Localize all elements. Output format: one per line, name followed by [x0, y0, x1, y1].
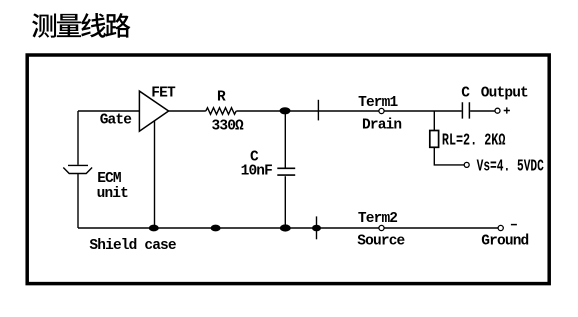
junction dot source rail at cap C1 — [280, 224, 291, 231]
svg-text:Vs=4. 5VDC: Vs=4. 5VDC — [477, 158, 544, 177]
terminal Term2 open circle — [379, 225, 384, 230]
svg-text:FET: FET — [151, 86, 176, 102]
svg-text:Term2: Term2 — [358, 211, 397, 227]
terminal Term1 open circle — [379, 108, 384, 113]
wire node A to Term1 — [285, 110, 379, 112]
terminal Ground open circle — [498, 225, 503, 230]
wire RL tee down to RL — [433, 111, 435, 131]
resistor RL box — [430, 131, 439, 148]
FET source wire — [154, 121, 156, 229]
tick mark on drain wire — [317, 100, 319, 121]
wire cap C1 branch vertical upper — [284, 113, 286, 168]
tick mark on source rail — [316, 216, 318, 239]
wire ECM to shield rail — [77, 174, 79, 229]
terminal Vs open circle — [464, 162, 469, 167]
wire FET output to resistor R — [169, 110, 206, 112]
wire ECM to gate vertical — [77, 111, 79, 165]
svg-text:Shield case: Shield case — [89, 238, 176, 254]
svg-text:ECM: ECM — [97, 171, 121, 187]
terminal Output open circle — [495, 108, 500, 113]
capacitor C2 plates — [462, 102, 469, 118]
ECM top plate — [68, 164, 88, 166]
svg-text:Output: Output — [481, 86, 528, 102]
node A junction dot — [280, 107, 291, 114]
svg-text:Gate: Gate — [100, 112, 132, 128]
wire cap C2 to output terminal — [470, 110, 495, 112]
minus sign ground polarity — [511, 224, 517, 226]
svg-text:RL=2. 2KΩ: RL=2. 2KΩ — [442, 132, 506, 151]
capacitor C1 plates — [277, 168, 295, 175]
wire RL to Vs terminal — [434, 147, 464, 165]
frame shield case border — [27, 55, 549, 284]
op-amp FET triangle — [139, 91, 168, 131]
junction dot source rail mid — [211, 225, 221, 232]
resistor R zigzag — [206, 108, 236, 115]
ECM capsule cup — [63, 168, 92, 174]
svg-text:Drain: Drain — [362, 117, 401, 133]
svg-text:Term1: Term1 — [358, 95, 398, 111]
wire gate top horizontal — [78, 110, 139, 112]
svg-text:Source: Source — [357, 234, 404, 250]
svg-text:C: C — [461, 85, 470, 101]
svg-text:330Ω: 330Ω — [212, 119, 245, 135]
svg-text:10nF: 10nF — [241, 164, 273, 180]
junction dot source rail at tick — [312, 225, 321, 232]
svg-text:R: R — [217, 90, 226, 106]
svg-text:unit: unit — [97, 186, 129, 202]
title 测量线路 — [32, 13, 130, 38]
junction dot source rail at FET — [149, 225, 159, 232]
shield rail right segment — [384, 227, 498, 229]
wire resistor R to node A — [236, 110, 284, 112]
svg-text:Ground: Ground — [481, 233, 528, 249]
plus sign output polarity — [504, 107, 510, 113]
wire cap C1 branch vertical lower — [284, 176, 286, 228]
shield rail left segment — [78, 227, 379, 229]
wire Term1 to RL tee and cap C2 — [384, 110, 462, 112]
